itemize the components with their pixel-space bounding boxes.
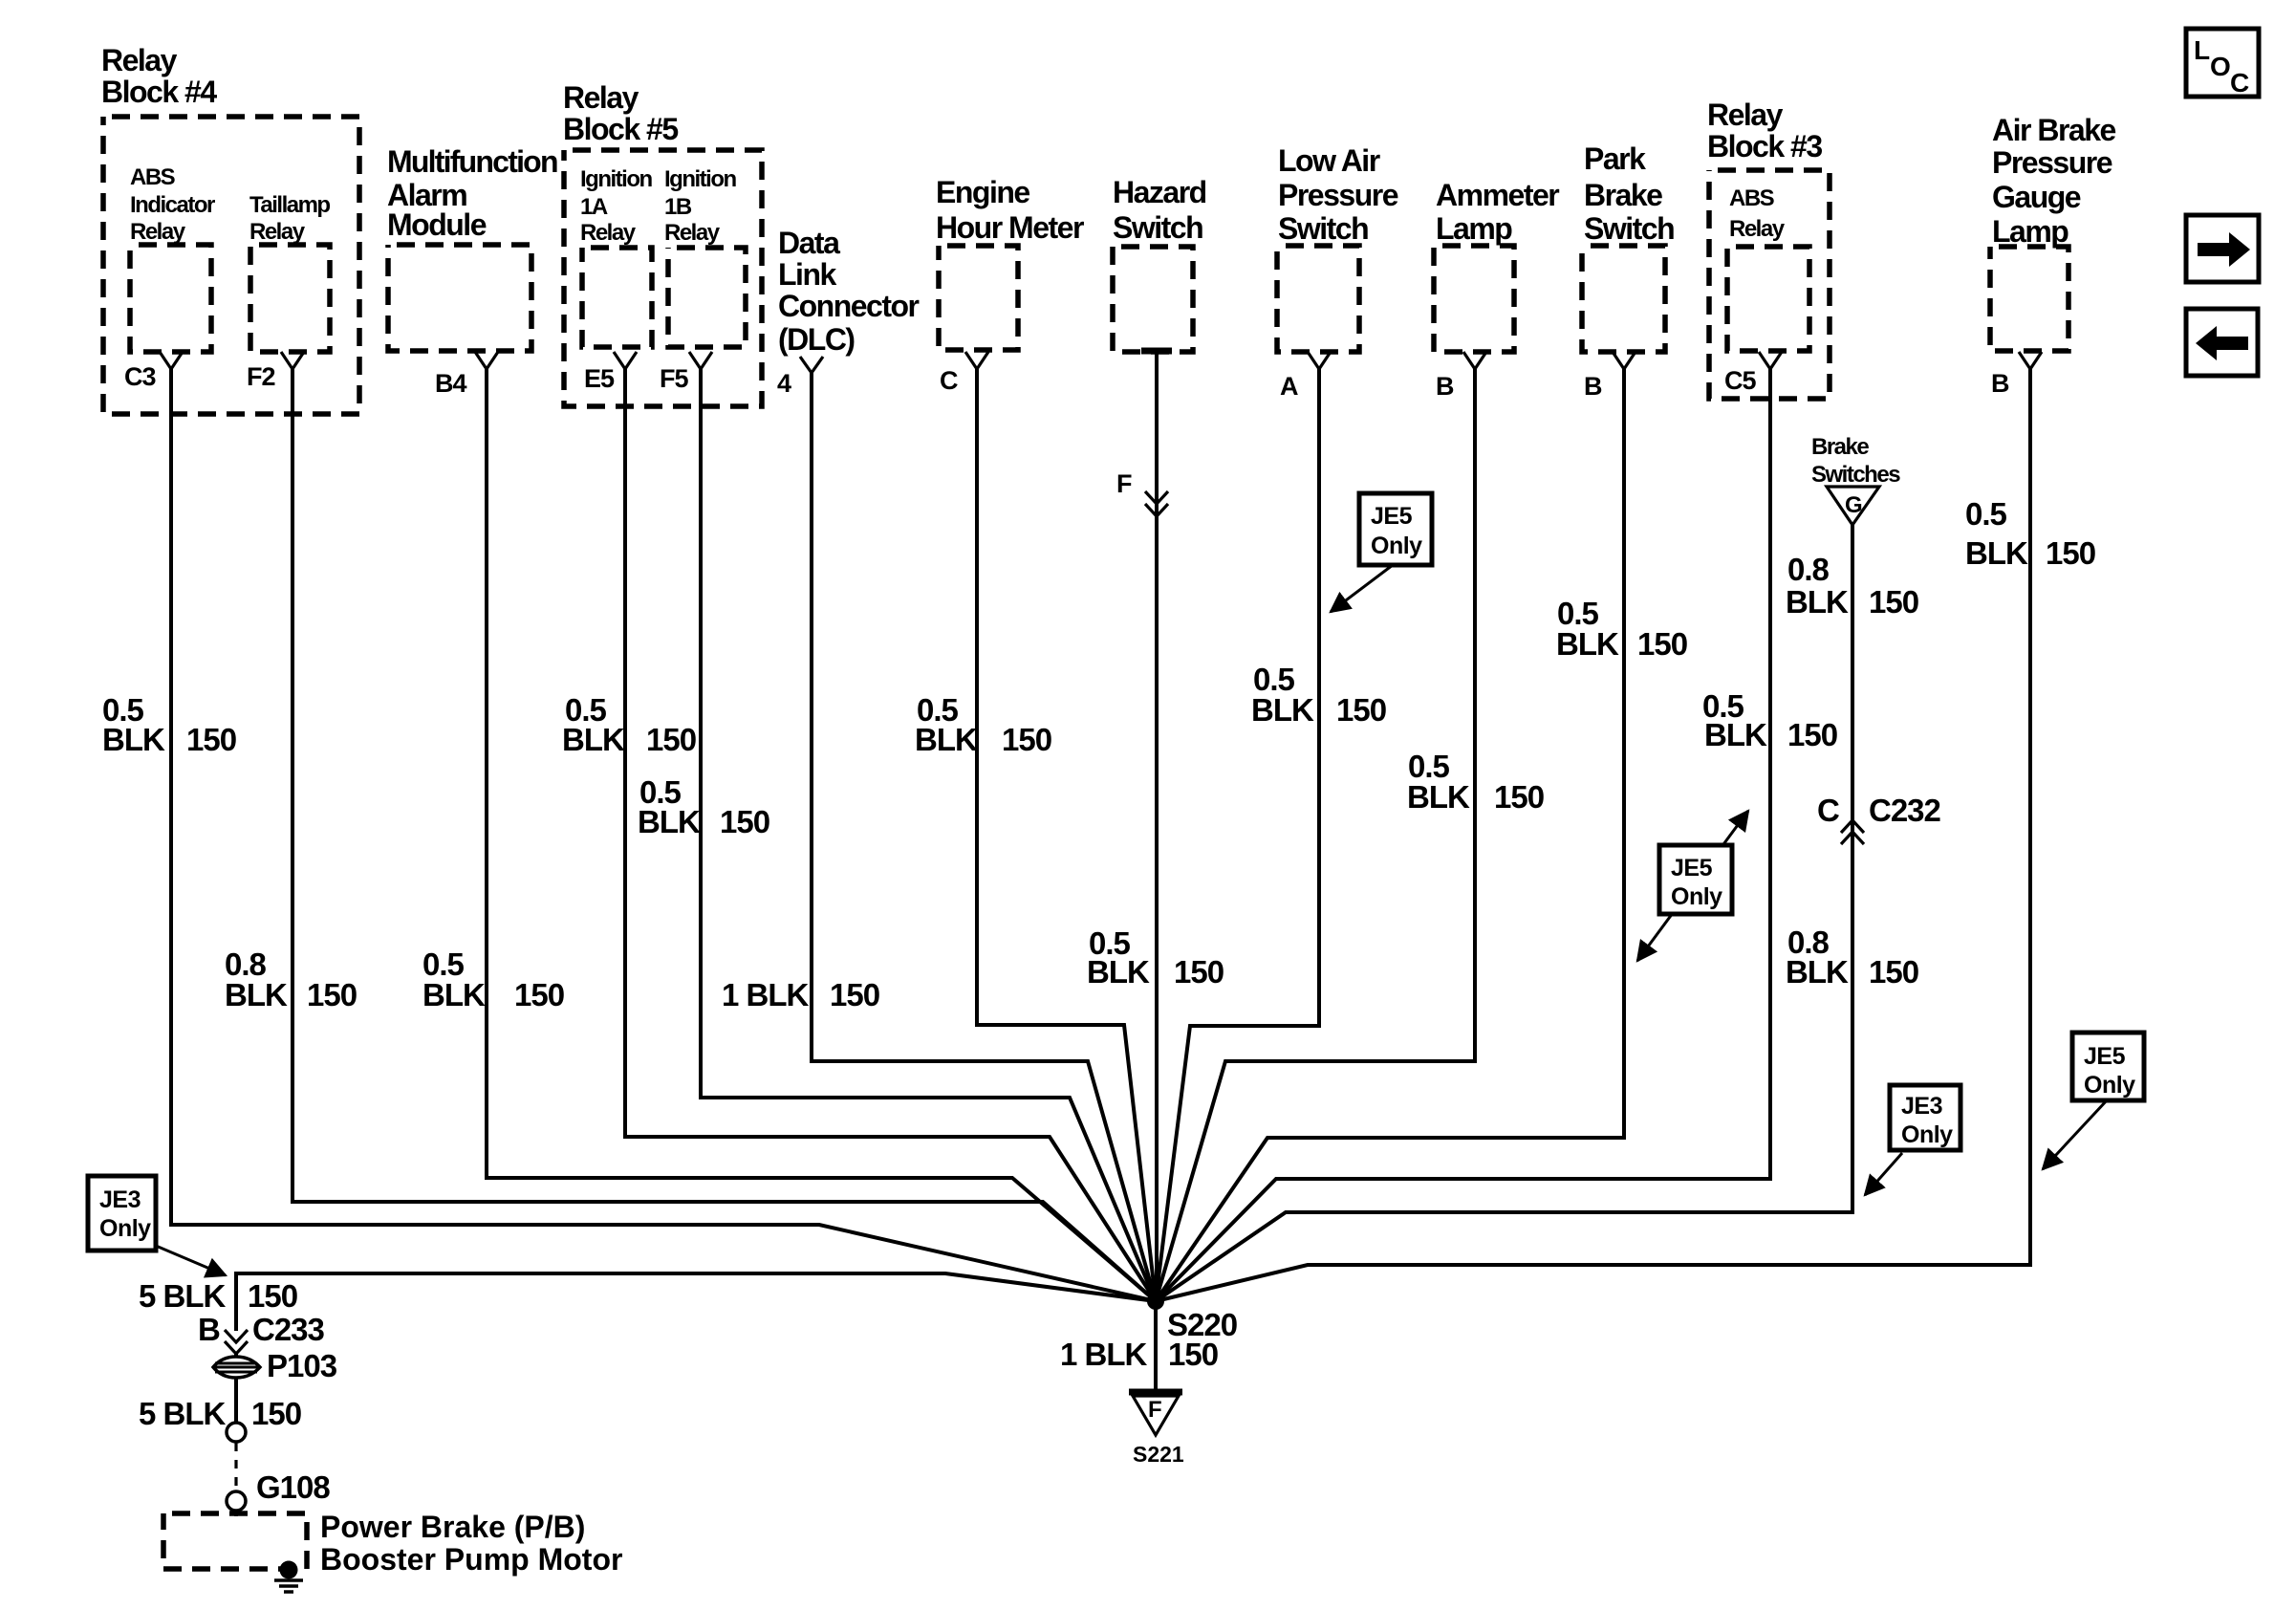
JE5 Only note box (park brake / C5) [1637,811,1748,961]
wire label 5 BLK 150 (lower) [139,1396,301,1431]
svg-text:Link: Link [778,257,836,292]
svg-text:Pressure: Pressure [1278,178,1398,212]
multifunction alarm module dashed box [388,245,531,351]
hazard switch dashed box [1113,247,1193,352]
connector C233 chevrons [198,1312,325,1354]
svg-text:150: 150 [646,722,696,757]
svg-text:B: B [198,1312,220,1347]
wire label 0.5 BLK 150 (low air) [1251,662,1386,728]
pin B ammeter [1436,352,1486,401]
svg-text:1A: 1A [580,194,608,220]
svg-text:Switch: Switch [1113,210,1202,245]
svg-text:B: B [1436,372,1454,401]
pin C5 [1724,352,1782,395]
svg-text:B: B [1991,369,2009,398]
ignition 1A relay dashed box [582,248,652,347]
wire from ABS relay pin C5 to S220 [1156,367,1770,1301]
svg-text:150: 150 [830,977,879,1012]
park brake switch label [1584,141,1674,246]
wire label 0.5 BLK 150 (ammeter) [1407,749,1544,815]
ignition 1A relay label [580,166,652,246]
svg-text:150: 150 [1869,954,1918,990]
svg-text:Relay: Relay [101,43,178,77]
svg-text:BLK: BLK [562,722,625,757]
svg-text:150: 150 [720,804,769,839]
svg-text:1 BLK: 1 BLK [722,977,810,1012]
right arrow legend box [2186,215,2259,282]
S221 F triangle [1129,1392,1182,1435]
relay block #5 label [563,80,678,146]
pin C [940,352,988,395]
engine hour meter label [936,175,1084,245]
power brake booster pump motor dashed box [163,1513,307,1569]
svg-text:BLK: BLK [1965,535,2028,571]
svg-text:150: 150 [1174,954,1224,990]
svg-text:Only: Only [99,1215,151,1242]
svg-text:G: G [1845,492,1862,518]
wire from brake switches G to S220 [1156,525,1852,1301]
svg-text:150: 150 [307,977,357,1012]
relay block #4 outer dashed box [103,117,359,414]
splice S220 dot [1147,1293,1164,1310]
svg-text:Module: Module [387,207,487,242]
svg-text:Brake: Brake [1584,178,1662,212]
hazard switch label [1113,175,1206,245]
pin B park brake [1584,352,1635,401]
wire label 0.5 BLK 150 (B4) [422,946,564,1012]
wire label 0.5 BLK 150 (air brake) [1965,496,2095,571]
svg-text:BLK: BLK [422,977,486,1012]
svg-text:Ignition: Ignition [664,166,736,192]
svg-text:Taillamp: Taillamp [249,192,330,218]
svg-text:5 BLK: 5 BLK [139,1278,227,1314]
wire from air brake pressure gauge lamp pin B to S220 [1156,367,2030,1301]
ABS indicator relay dashed box [130,245,211,352]
svg-text:L: L [2194,35,2210,65]
svg-text:C: C [2230,68,2249,98]
svg-text:150: 150 [1494,779,1544,815]
brake switches G triangle [1827,487,1879,525]
svg-text:Block #5: Block #5 [563,112,678,146]
air brake pressure gauge lamp label [1992,113,2116,249]
svg-text:1 BLK: 1 BLK [1060,1337,1148,1372]
wire label 5 BLK 150 (upper) [139,1278,297,1314]
wire label 0.8 BLK 150 (brake switches lower) [1786,925,1918,990]
svg-text:F2: F2 [247,362,275,391]
svg-text:Engine: Engine [936,175,1029,209]
svg-text:BLK: BLK [102,722,165,757]
svg-text:BLK: BLK [1407,779,1470,815]
svg-text:Relay: Relay [580,220,637,246]
svg-text:(DLC): (DLC) [778,322,855,357]
svg-text:P103: P103 [267,1348,337,1383]
svg-text:C: C [1817,793,1839,828]
wire label 0.5 BLK 150 (park brake) [1556,596,1687,662]
ABS indicator relay label [130,164,215,245]
ground symbol at booster pump motor [274,1561,303,1593]
svg-text:Ammeter: Ammeter [1436,178,1559,212]
relay block #3 outer dashed box [1709,170,1830,399]
svg-text:E5: E5 [584,364,615,393]
svg-text:4: 4 [777,369,791,398]
1 BLK 150 label at S220 [1060,1337,1218,1372]
multifunction alarm module label [387,144,557,242]
pin C3 [124,352,183,391]
brake switches label [1811,434,1900,488]
svg-text:Low Air: Low Air [1278,143,1380,178]
engine hour meter dashed box [939,246,1018,350]
ground feed wire from S220 to C233 [236,1273,1156,1331]
S221 label [1133,1442,1184,1467]
wire from ammeter lamp pin B to S220 [1156,367,1475,1301]
svg-text:Relay: Relay [1707,98,1784,132]
svg-text:Only: Only [1901,1121,1953,1148]
wire from park brake switch pin B to S220 [1156,367,1624,1301]
svg-text:BLK: BLK [225,977,288,1012]
ABS relay dashed box [1727,247,1809,351]
ignition 1B relay dashed box [668,248,746,347]
svg-text:ABS: ABS [130,164,176,190]
svg-text:ABS: ABS [1729,185,1775,211]
svg-text:Lamp: Lamp [1436,211,1512,246]
ring terminal lower / ground G108 [227,1469,330,1511]
svg-text:Only: Only [1671,883,1722,910]
svg-text:Power Brake (P/B): Power Brake (P/B) [320,1510,585,1544]
svg-text:BLK: BLK [638,804,701,839]
svg-text:150: 150 [186,722,236,757]
wire label 0.5 BLK 150 (hazard) [1087,925,1224,990]
svg-text:Only: Only [1371,533,1422,559]
svg-text:Indicator: Indicator [130,192,215,218]
wire from low air pressure switch pin A to S220 [1156,367,1319,1301]
svg-text:A: A [1280,372,1298,401]
svg-text:BLK: BLK [1556,626,1619,662]
air brake pressure gauge lamp dashed box [1990,247,2069,351]
pin F5 [660,352,712,393]
svg-text:BLK: BLK [1704,717,1767,752]
pin E5 [584,352,637,393]
svg-text:150: 150 [1787,717,1837,752]
svg-text:Air Brake: Air Brake [1992,113,2116,147]
relay block #5 outer dashed box [564,150,762,406]
svg-text:Only: Only [2084,1072,2135,1099]
svg-text:Connector: Connector [778,289,920,323]
wire label 0.8 BLK 150 (brake switches upper) [1786,552,1918,620]
connector F chevrons on hazard wire [1116,469,1168,516]
svg-text:0.5: 0.5 [1965,496,2007,532]
svg-text:C: C [940,366,958,395]
svg-text:Pressure: Pressure [1992,145,2112,180]
svg-text:Booster Pump Motor: Booster Pump Motor [320,1542,622,1577]
svg-text:B4: B4 [435,369,466,398]
svg-text:BLK: BLK [1087,954,1150,990]
low air pressure switch label [1278,143,1398,246]
wire label 0.5 BLK 150 (F5) [638,774,769,839]
wire from ignition 1B relay pin F5 to S220 [701,367,1156,1301]
connector C232 chevrons on brake switches wire [1817,793,1941,844]
svg-text:0.8: 0.8 [1787,552,1830,587]
wire label 0.5 BLK 150 (engine hour meter) [915,692,1051,757]
hazard switch wire stub bar [1141,348,1172,355]
svg-text:150: 150 [1168,1337,1218,1372]
wire from P103 to splice ring [234,1378,238,1423]
svg-text:150: 150 [1637,626,1687,662]
wire label 0.5 BLK 150 (E5) [562,692,696,757]
svg-text:Gauge: Gauge [1992,180,2081,214]
svg-text:JE3: JE3 [99,1186,141,1213]
svg-text:JE5: JE5 [1371,503,1413,530]
svg-text:1B: 1B [664,194,692,220]
svg-text:Switch: Switch [1278,211,1368,246]
svg-text:C3: C3 [124,362,156,391]
svg-text:F: F [1116,469,1132,498]
svg-text:C232: C232 [1869,793,1941,828]
left arrow legend box [2186,309,2258,376]
grommet P103 [213,1348,337,1383]
wire from engine hour meter pin C to S220 [977,367,1156,1301]
low air pressure switch dashed box [1277,246,1359,352]
wire label 1 BLK 150 (DLC) [722,977,879,1012]
svg-text:BLK: BLK [1786,584,1849,620]
dashed ground lead [234,1443,237,1490]
taillamp relay dashed box [250,245,330,352]
data link connector label [778,226,920,357]
svg-text:Hazard: Hazard [1113,175,1206,209]
svg-text:B: B [1584,372,1602,401]
svg-text:Lamp: Lamp [1992,214,2069,249]
LOC legend box [2186,29,2259,98]
relay block #3 label [1707,98,1822,163]
pin F2 [247,352,304,391]
svg-text:G108: G108 [256,1469,330,1505]
svg-text:150: 150 [1002,722,1051,757]
JE3 Only note box (left) [88,1176,226,1275]
svg-text:O: O [2210,52,2231,81]
svg-text:Relay: Relay [130,219,186,245]
svg-text:BLK: BLK [915,722,978,757]
wire label 0.5 BLK 150 (C3) [102,692,236,757]
svg-text:Switch: Switch [1584,211,1674,246]
svg-text:Data: Data [778,226,840,260]
svg-text:150: 150 [251,1396,301,1431]
stub into booster pump motor box [234,1511,238,1516]
wire label 0.8 BLK 150 (F2) [225,946,357,1012]
svg-text:Relay: Relay [1729,216,1786,242]
relay block #4 label [101,43,217,109]
svg-text:Block #3: Block #3 [1707,129,1822,163]
JE5 Only note box (low air) [1331,493,1432,612]
svg-text:Relay: Relay [249,219,306,245]
svg-text:C233: C233 [252,1312,325,1347]
wire from DLC pin 4 to S220 [812,371,1156,1301]
park brake switch dashed box [1582,246,1665,352]
wire from taillamp relay pin F2 to S220 [292,367,1156,1301]
ignition 1B relay label [664,166,736,246]
svg-text:Park: Park [1584,141,1646,176]
ring terminal upper [227,1423,246,1442]
wire from multifunction alarm module pin B4 to S220 [487,367,1156,1301]
wire from ignition 1A relay pin E5 to S220 [625,367,1156,1301]
wire from hazard switch to S220 [1155,351,1159,1301]
pin 4 [777,357,823,398]
svg-text:BLK: BLK [1786,954,1849,990]
svg-text:5 BLK: 5 BLK [139,1396,227,1431]
svg-text:JE5: JE5 [2084,1043,2126,1070]
wire from S220 to S221 [1154,1301,1158,1392]
power brake booster pump motor label [320,1510,622,1577]
S220 label [1167,1307,1237,1342]
ammeter lamp label [1436,178,1559,246]
svg-text:Hour Meter: Hour Meter [936,210,1084,245]
svg-text:Relay: Relay [664,220,721,246]
svg-text:150: 150 [2046,535,2095,571]
svg-text:150: 150 [1336,692,1386,728]
svg-text:150: 150 [248,1278,297,1314]
wire from ABS indicator relay pin C3 to S220 [171,367,1156,1301]
svg-text:Block #4: Block #4 [101,75,217,109]
svg-text:150: 150 [1869,584,1918,620]
svg-text:BLK: BLK [1251,692,1314,728]
svg-text:Ignition: Ignition [580,166,652,192]
JE3 Only note box (right) [1865,1085,1960,1195]
svg-text:Multifunction: Multifunction [387,144,557,179]
svg-text:Relay: Relay [563,80,639,115]
svg-text:Brake: Brake [1811,434,1869,460]
svg-text:JE5: JE5 [1671,855,1713,881]
pin B4 [435,352,498,398]
svg-text:S221: S221 [1133,1442,1184,1467]
pin B air brake [1991,352,2042,398]
svg-text:F: F [1148,1397,1162,1423]
pin A [1280,352,1331,401]
JE5 Only note box (air brake) [2043,1033,2144,1169]
svg-text:JE3: JE3 [1901,1093,1942,1120]
svg-text:Switches: Switches [1811,462,1900,488]
ABS relay label [1729,185,1786,242]
wire label 0.5 BLK 150 (ABS relay C5) [1702,688,1837,752]
svg-text:C5: C5 [1724,366,1756,395]
taillamp relay label [249,192,330,245]
svg-text:F5: F5 [660,364,688,393]
svg-text:150: 150 [514,977,564,1012]
ammeter lamp dashed box [1434,246,1514,352]
